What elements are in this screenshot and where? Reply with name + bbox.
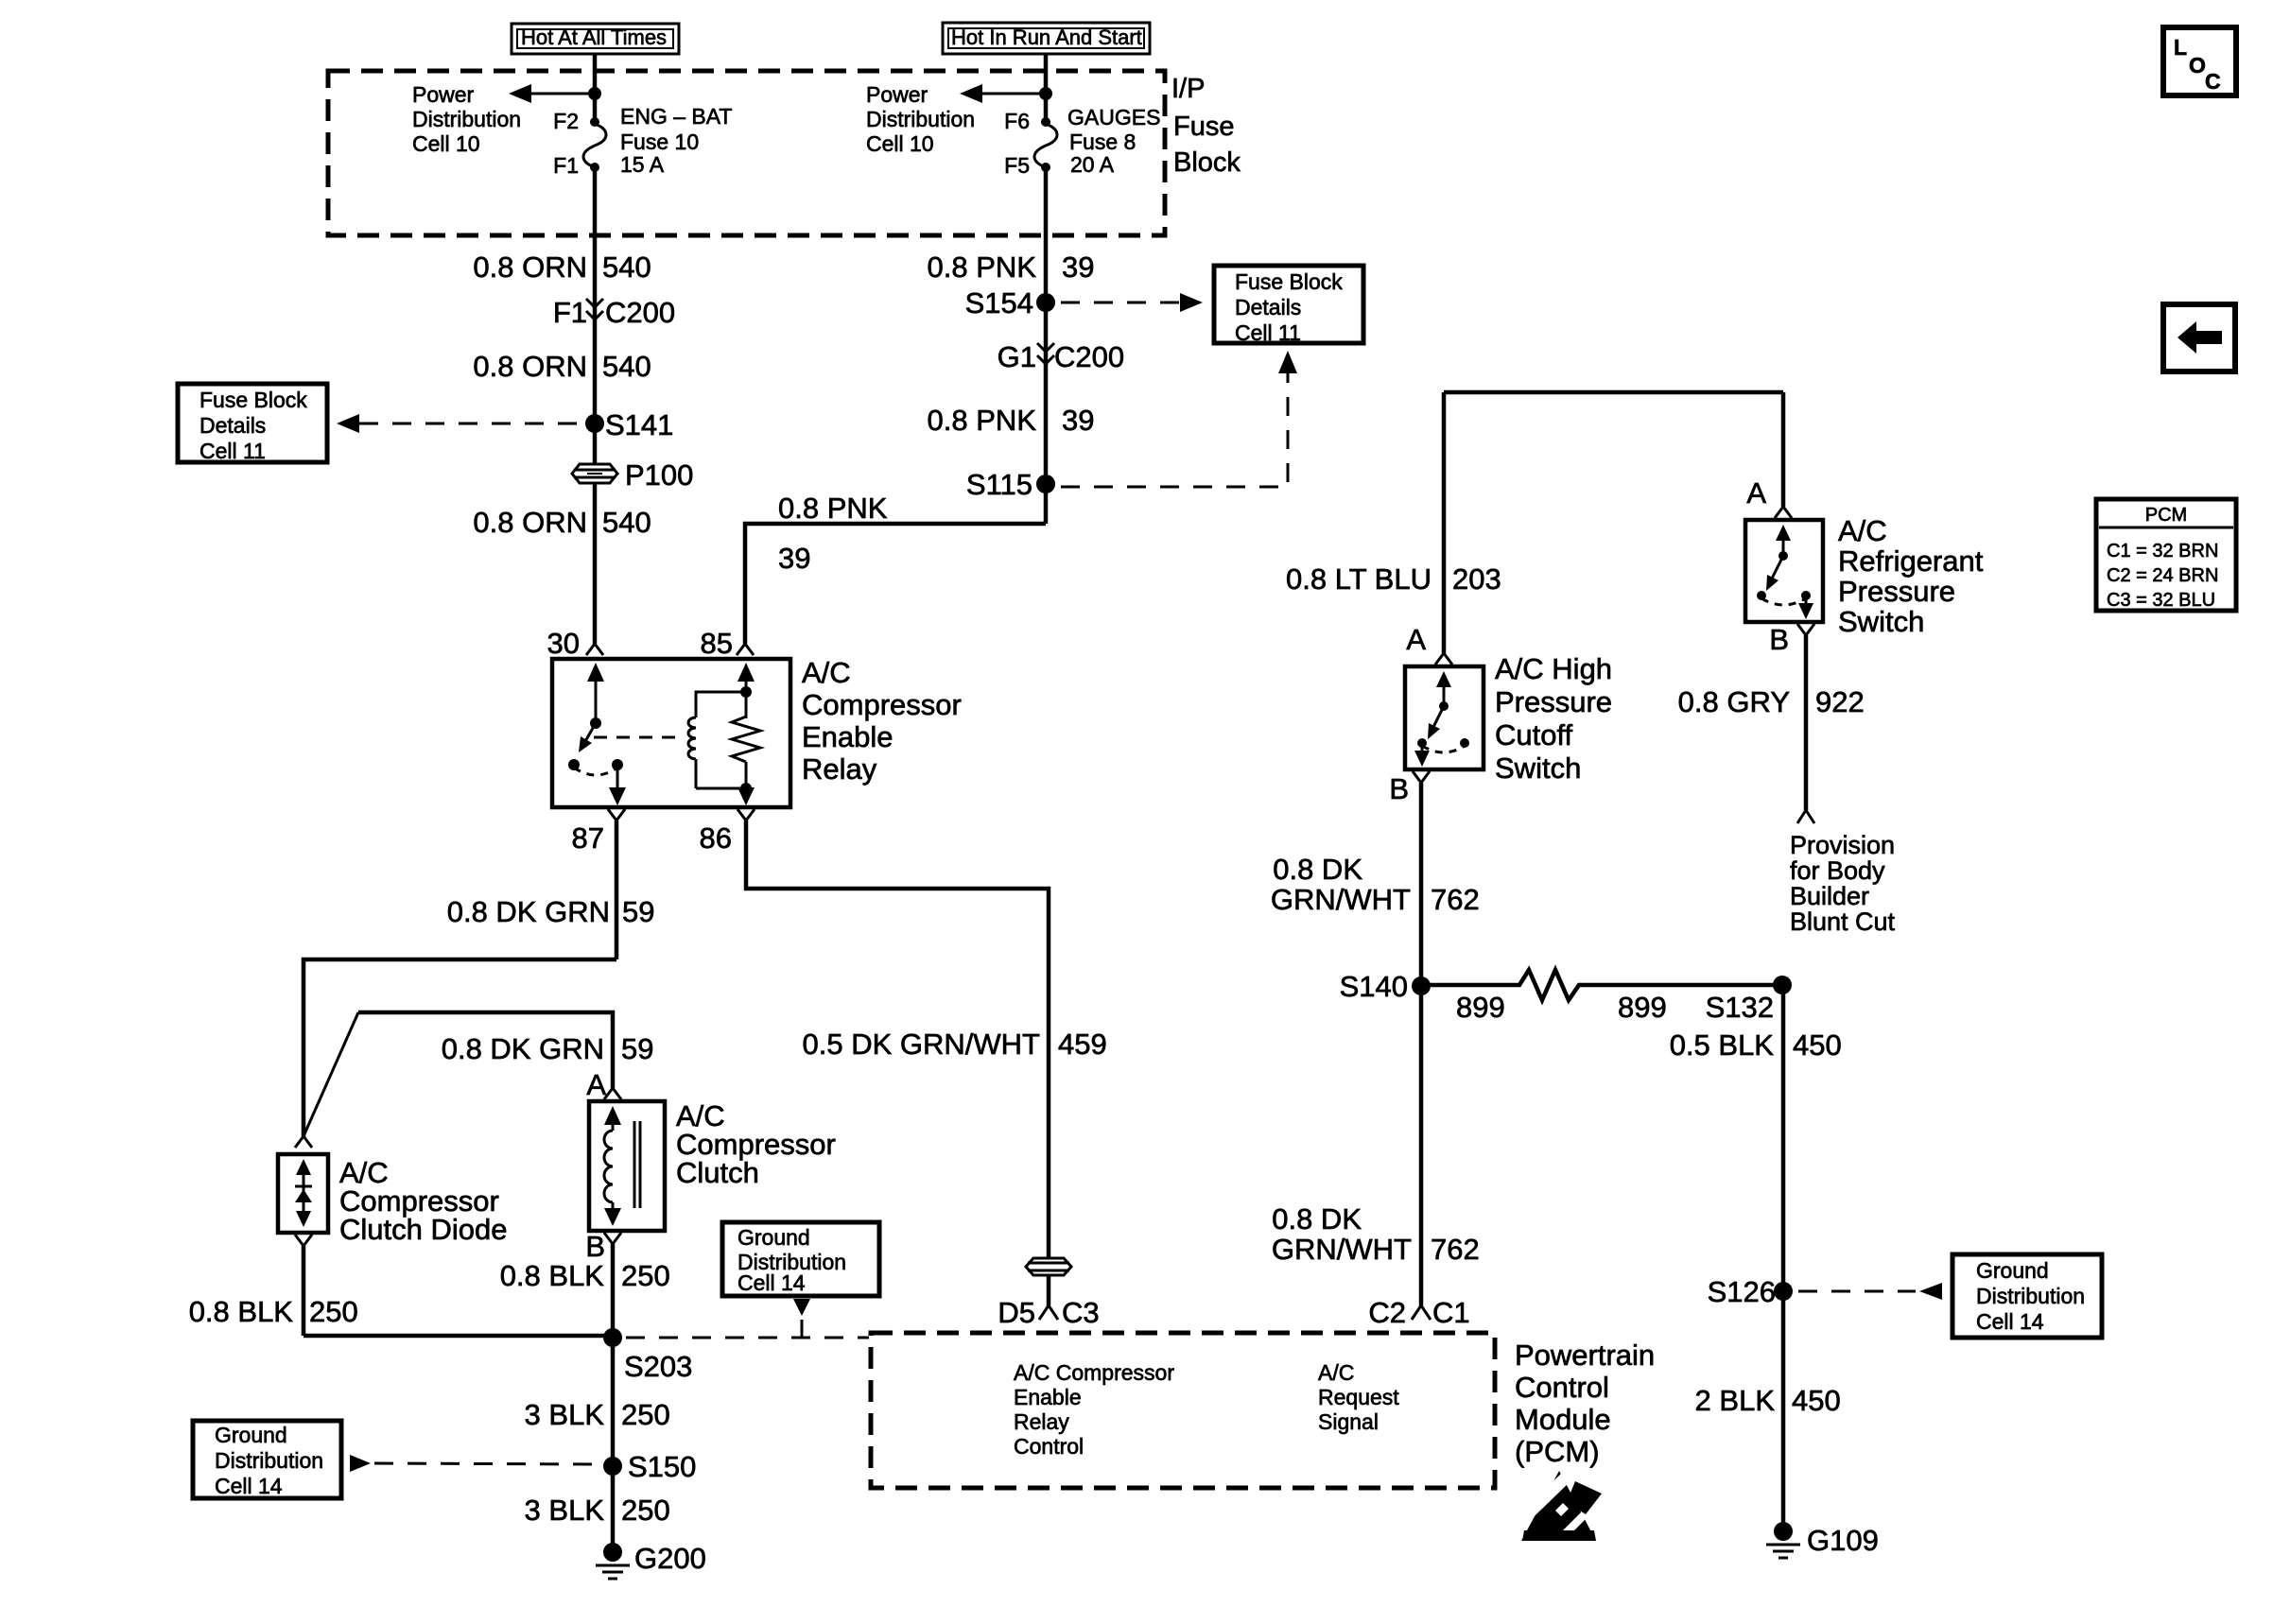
svg-text:C1: C1 — [1432, 1296, 1470, 1329]
svg-text:Ground: Ground — [215, 1423, 287, 1447]
svg-text:Cell 11: Cell 11 — [200, 439, 266, 463]
svg-text:250: 250 — [621, 1494, 670, 1527]
svg-text:A: A — [586, 1068, 606, 1101]
svg-text:S150: S150 — [628, 1450, 696, 1483]
svg-text:P100: P100 — [625, 458, 693, 492]
svg-text:Switch: Switch — [1495, 752, 1581, 785]
svg-text:Enable: Enable — [1014, 1385, 1082, 1409]
svg-text:Builder: Builder — [1790, 882, 1869, 910]
svg-text:0.8 LT BLU: 0.8 LT BLU — [1286, 562, 1431, 596]
svg-text:0.8 BLK: 0.8 BLK — [189, 1295, 294, 1328]
svg-text:S132: S132 — [1706, 991, 1774, 1024]
svg-text:87: 87 — [572, 821, 604, 855]
svg-text:0.8 GRY: 0.8 GRY — [1678, 685, 1790, 718]
svg-text:I/P: I/P — [1171, 74, 1205, 104]
svg-text:762: 762 — [1431, 883, 1480, 916]
svg-text:250: 250 — [309, 1295, 358, 1328]
svg-text:A: A — [1746, 476, 1766, 510]
svg-text:15 A: 15 A — [620, 152, 665, 177]
svg-text:Compressor: Compressor — [802, 688, 962, 721]
svg-text:Request: Request — [1318, 1385, 1399, 1409]
svg-text:0.8 ORN: 0.8 ORN — [473, 251, 587, 284]
svg-text:Cutoff: Cutoff — [1495, 718, 1573, 752]
svg-text:F6: F6 — [1004, 109, 1030, 133]
svg-text:C3 = 32 BLU: C3 = 32 BLU — [2107, 590, 2215, 611]
svg-text:B: B — [1389, 772, 1409, 805]
svg-text:F1: F1 — [553, 296, 587, 329]
svg-text:O: O — [2189, 53, 2206, 78]
svg-text:0.8 DK: 0.8 DK — [1273, 853, 1362, 886]
svg-text:0.8 PNK: 0.8 PNK — [928, 404, 1037, 437]
svg-text:A/C: A/C — [1318, 1360, 1354, 1385]
svg-text:Cell 14: Cell 14 — [215, 1474, 283, 1498]
svg-text:Ground: Ground — [1976, 1258, 2049, 1283]
svg-text:540: 540 — [602, 350, 651, 383]
svg-text:for Body: for Body — [1790, 856, 1885, 885]
svg-text:D5: D5 — [998, 1296, 1035, 1329]
svg-text:540: 540 — [602, 506, 651, 539]
svg-text:39: 39 — [1062, 251, 1094, 284]
svg-text:0.8 ORN: 0.8 ORN — [473, 350, 587, 383]
svg-text:Hot At All Times: Hot At All Times — [521, 26, 667, 49]
svg-text:Details: Details — [1235, 295, 1301, 320]
svg-text:Power: Power — [866, 82, 928, 107]
svg-text:Fuse 10: Fuse 10 — [620, 130, 699, 154]
svg-text:Enable: Enable — [802, 720, 894, 753]
svg-text:C2 = 24 BRN: C2 = 24 BRN — [2107, 565, 2218, 586]
svg-text:B: B — [585, 1230, 605, 1263]
svg-text:0.8 PNK: 0.8 PNK — [928, 251, 1037, 284]
svg-text:G200: G200 — [634, 1542, 706, 1575]
svg-text:A: A — [1406, 623, 1426, 656]
svg-text:0.5 DK GRN/WHT: 0.5 DK GRN/WHT — [803, 1028, 1041, 1061]
svg-text:A/C Compressor: A/C Compressor — [1014, 1360, 1174, 1385]
svg-text:86: 86 — [700, 821, 732, 855]
svg-text:0.8 BLK: 0.8 BLK — [500, 1259, 605, 1292]
svg-text:3 BLK: 3 BLK — [525, 1494, 605, 1527]
svg-text:Relay: Relay — [802, 752, 877, 786]
svg-text:Control: Control — [1014, 1434, 1084, 1459]
svg-text:(PCM): (PCM) — [1515, 1435, 1600, 1468]
svg-text:C200: C200 — [605, 296, 675, 329]
svg-text:85: 85 — [701, 627, 733, 660]
svg-text:C200: C200 — [1054, 340, 1124, 373]
svg-text:Switch: Switch — [1838, 605, 1924, 638]
svg-text:Fuse Block: Fuse Block — [1235, 269, 1343, 294]
svg-text:20 A: 20 A — [1070, 152, 1115, 177]
svg-text:Cell 10: Cell 10 — [866, 131, 934, 156]
svg-text:Pressure: Pressure — [1838, 575, 1955, 608]
svg-text:Hot In Run And Start: Hot In Run And Start — [951, 26, 1142, 49]
svg-text:Control: Control — [1515, 1371, 1609, 1404]
svg-text:Provision: Provision — [1790, 831, 1895, 859]
svg-text:540: 540 — [602, 251, 651, 284]
svg-text:Relay: Relay — [1014, 1409, 1069, 1434]
svg-text:Cell 14: Cell 14 — [1976, 1309, 2044, 1334]
svg-text:Block: Block — [1173, 147, 1241, 178]
svg-text:Fuse Block: Fuse Block — [200, 388, 307, 412]
svg-text:S140: S140 — [1340, 970, 1408, 1003]
svg-text:Module: Module — [1515, 1403, 1611, 1436]
svg-text:Blunt Cut: Blunt Cut — [1790, 907, 1896, 936]
svg-text:GRN/WHT: GRN/WHT — [1271, 883, 1411, 916]
svg-text:Ground: Ground — [737, 1225, 810, 1250]
svg-text:Powertrain: Powertrain — [1515, 1339, 1655, 1372]
svg-text:B: B — [1769, 623, 1789, 656]
svg-text:C1 = 32 BRN: C1 = 32 BRN — [2107, 541, 2218, 561]
svg-text:450: 450 — [1793, 1028, 1842, 1062]
svg-text:39: 39 — [1062, 404, 1094, 437]
svg-text:Refrigerant: Refrigerant — [1838, 544, 1984, 578]
svg-text:0.8 DK: 0.8 DK — [1272, 1202, 1362, 1235]
svg-text:GAUGES: GAUGES — [1067, 105, 1160, 130]
svg-text:S203: S203 — [624, 1350, 692, 1383]
svg-text:Distribution: Distribution — [412, 107, 521, 131]
svg-text:250: 250 — [621, 1398, 670, 1431]
svg-text:F5: F5 — [1004, 153, 1030, 178]
svg-text:250: 250 — [621, 1259, 670, 1292]
svg-text:203: 203 — [1452, 562, 1501, 596]
svg-text:Pressure: Pressure — [1495, 685, 1612, 718]
svg-text:A/C: A/C — [802, 656, 851, 689]
svg-text:450: 450 — [1792, 1384, 1841, 1417]
svg-text:3 BLK: 3 BLK — [525, 1398, 605, 1431]
svg-text:ENG – BAT: ENG – BAT — [620, 104, 732, 129]
svg-text:PCM: PCM — [2145, 505, 2187, 526]
svg-text:459: 459 — [1058, 1028, 1107, 1061]
svg-text:899: 899 — [1456, 991, 1505, 1024]
svg-text:Signal: Signal — [1318, 1409, 1379, 1434]
svg-text:Cell 11: Cell 11 — [1235, 320, 1301, 345]
svg-text:59: 59 — [621, 1032, 653, 1065]
svg-text:0.8 ORN: 0.8 ORN — [473, 506, 587, 539]
svg-text:0.8 DK GRN: 0.8 DK GRN — [442, 1032, 604, 1065]
svg-text:S115: S115 — [966, 468, 1032, 501]
svg-text:30: 30 — [547, 627, 580, 660]
svg-text:Distribution: Distribution — [215, 1448, 323, 1473]
svg-text:Cell 14: Cell 14 — [737, 1270, 806, 1295]
svg-text:Cell 10: Cell 10 — [412, 131, 480, 156]
svg-text:Fuse: Fuse — [1173, 112, 1234, 142]
svg-text:GRN/WHT: GRN/WHT — [1272, 1233, 1412, 1266]
svg-text:0.5 BLK: 0.5 BLK — [1670, 1028, 1775, 1062]
svg-text:Details: Details — [200, 413, 266, 438]
svg-text:G1: G1 — [998, 340, 1036, 373]
svg-text:0.8 DK GRN: 0.8 DK GRN — [447, 895, 610, 928]
svg-text:2 BLK: 2 BLK — [1695, 1384, 1776, 1417]
svg-text:C: C — [2205, 69, 2221, 94]
svg-text:0.8 PNK: 0.8 PNK — [778, 492, 888, 525]
svg-text:C2: C2 — [1368, 1296, 1406, 1329]
svg-text:922: 922 — [1815, 685, 1865, 718]
svg-text:G109: G109 — [1807, 1524, 1879, 1557]
svg-text:F2: F2 — [553, 109, 579, 133]
svg-text:F1: F1 — [553, 153, 579, 178]
svg-text:762: 762 — [1431, 1233, 1480, 1266]
svg-text:A/C: A/C — [1838, 514, 1887, 547]
svg-text:S126: S126 — [1708, 1275, 1776, 1308]
svg-text:L: L — [2174, 35, 2187, 60]
svg-text:Distribution: Distribution — [1976, 1284, 2085, 1308]
svg-text:Power: Power — [412, 82, 475, 107]
svg-text:S154: S154 — [965, 286, 1033, 320]
svg-text:Clutch: Clutch — [676, 1156, 759, 1189]
svg-text:S141: S141 — [605, 408, 673, 441]
svg-text:C3: C3 — [1062, 1296, 1100, 1329]
svg-text:899: 899 — [1618, 991, 1667, 1024]
svg-text:39: 39 — [778, 542, 810, 575]
svg-text:Clutch Diode: Clutch Diode — [339, 1213, 507, 1246]
svg-text:Distribution: Distribution — [866, 107, 975, 131]
svg-text:Fuse 8: Fuse 8 — [1069, 130, 1136, 154]
svg-text:A/C High: A/C High — [1495, 652, 1612, 685]
svg-text:59: 59 — [622, 895, 654, 928]
